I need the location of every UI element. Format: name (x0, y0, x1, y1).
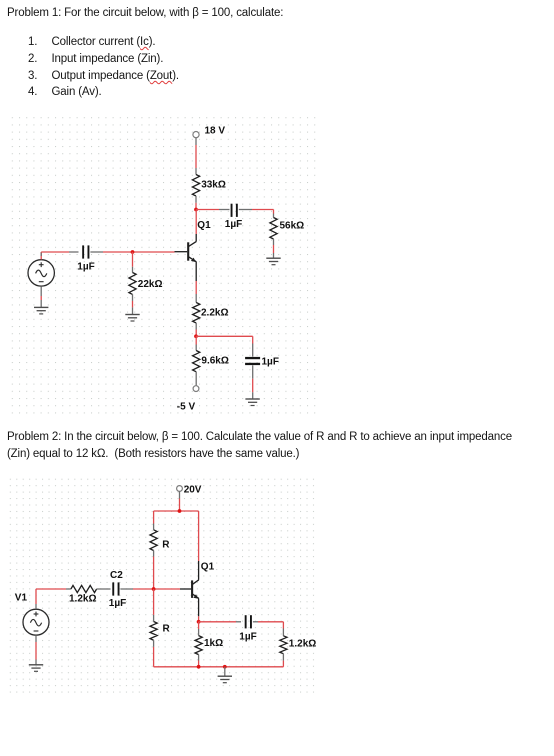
svg-text:1µF: 1µF (225, 219, 242, 230)
node emitter divider (194, 334, 198, 338)
label -5 V (177, 402, 196, 413)
capacitor 1uF bypass circuit2 (245, 615, 252, 628)
resistor 33k (192, 175, 199, 197)
node collector (194, 208, 198, 212)
label 18 V (205, 126, 226, 137)
wire C2 to base node to Q1 base (121, 588, 192, 590)
svg-text:1µF: 1µF (109, 598, 126, 609)
resistor 22k (129, 273, 136, 295)
label R upper (162, 540, 170, 551)
heading problem 2 line 1 (7, 431, 512, 443)
svg-text:1µF: 1µF (77, 261, 94, 272)
wire R lower to bottom rail (153, 640, 155, 667)
wire source bottom to ground (40, 286, 42, 307)
ground 22k (125, 315, 139, 322)
resistor 2.2k (193, 303, 200, 324)
wire R upper to base node (153, 551, 155, 590)
label C2 (110, 570, 123, 581)
wire V1 top to series R (36, 589, 71, 609)
wire emitter row to bypass cap (199, 621, 241, 623)
list item 2 (28, 53, 37, 65)
svg-text:33kΩ: 33kΩ (201, 179, 226, 190)
svg-text:2.2kΩ: 2.2kΩ (201, 308, 228, 319)
svg-text:9.6kΩ: 9.6kΩ (201, 356, 228, 367)
node top rail (178, 509, 182, 513)
terminal 20V (177, 486, 183, 492)
ground V1 (29, 665, 43, 672)
ground source (34, 307, 48, 314)
ground bypass (245, 399, 259, 406)
terminal 18 V (193, 132, 199, 138)
node bottom rail ground (223, 665, 227, 669)
svg-text:1µF: 1µF (262, 356, 279, 367)
svg-text:C2: C2 (110, 570, 123, 581)
resistor 9.6k (193, 336, 200, 385)
resistor 1k (195, 622, 202, 667)
label 1uF bypass (262, 356, 279, 367)
label 1.2k series (69, 594, 96, 605)
wire source top to C in (41, 252, 78, 260)
label 2.2k (201, 308, 228, 319)
label Q1 (197, 220, 211, 231)
label 1uF input (77, 261, 94, 272)
resistor 1.2k right (280, 629, 287, 661)
capacitor C2 (112, 582, 119, 595)
wire base node down to 22k (132, 252, 134, 273)
wire rail to ground stem (224, 667, 226, 676)
wire left column upper (153, 511, 155, 530)
grid background circuit 1 (8, 114, 319, 414)
wire series R to C2 (97, 588, 111, 590)
svg-text:Q1: Q1 (201, 562, 215, 573)
wire collector circuit2 (198, 511, 200, 580)
node base circuit2 (152, 587, 156, 591)
wire bypass cap to 1.2k corner (253, 622, 284, 629)
svg-text:R: R (163, 623, 171, 634)
wire V1 bottom to ground (35, 635, 37, 665)
label Q1 circuit2 (201, 562, 215, 573)
label 1uF C2 (109, 598, 126, 609)
resistor 1.2k series (71, 585, 97, 592)
ground 56k (266, 258, 280, 265)
ground bottom rail (218, 676, 232, 683)
list item 1 (28, 36, 37, 48)
heading problem 2 line 2 (7, 448, 299, 460)
wire bypass cap to ground (252, 365, 254, 399)
heading problem 1 (7, 7, 283, 19)
capacitor 1uF output (231, 204, 238, 217)
label 33k (201, 179, 226, 190)
wire node to C out (196, 209, 230, 211)
node base (131, 250, 135, 254)
source V AC input (28, 260, 54, 286)
label 22k (138, 279, 163, 290)
resistor R upper (150, 530, 157, 551)
transistor Q1 (175, 241, 197, 262)
top rail wire (154, 510, 199, 512)
label 9.6k (201, 356, 228, 367)
wire 56k to ground (273, 245, 275, 258)
label 1.2k right (289, 639, 316, 650)
svg-text:56kΩ: 56kΩ (280, 221, 305, 232)
label 1k (204, 638, 223, 649)
svg-text:1.2kΩ: 1.2kΩ (289, 639, 316, 650)
label 1uF output (225, 219, 242, 230)
wire collector (195, 210, 197, 242)
svg-text:20V: 20V (184, 485, 202, 496)
wire 1.2k right to bottom rail (282, 661, 284, 667)
wire 18V to R 33k (195, 138, 197, 175)
resistor 56k (270, 214, 277, 246)
grid background circuit 2 (8, 476, 319, 696)
wire C in to base node (90, 251, 174, 253)
label R lower (163, 623, 171, 634)
wire 20V to top rail (179, 491, 181, 511)
resistor R lower (150, 622, 157, 641)
svg-text:V1: V1 (15, 592, 28, 603)
label 56k (280, 221, 305, 232)
svg-text:22kΩ: 22kΩ (138, 279, 163, 290)
svg-text:18 V: 18 V (205, 126, 226, 137)
capacitor 1uF input (82, 245, 89, 258)
wire emitter circuit2 (198, 598, 200, 621)
label 1uF bypass circuit2 (239, 632, 256, 643)
list item 3 (28, 70, 37, 82)
wire 22k to ground (132, 294, 134, 314)
svg-text:-5 V: -5 V (177, 402, 196, 413)
svg-text:Q1: Q1 (197, 220, 211, 231)
label V1 (15, 592, 28, 603)
bottom rail wire (154, 666, 284, 668)
label 20V (184, 485, 202, 496)
svg-text:1µF: 1µF (239, 632, 256, 643)
wire C out to 56k corner (239, 210, 274, 214)
terminal -5V (193, 386, 199, 392)
wire R33k to collector node (195, 196, 197, 210)
node bottom rail 1k (197, 665, 201, 669)
list item 4 (28, 86, 37, 98)
wire 2.2k to emitter node (195, 323, 197, 336)
capacitor 1uF bypass (245, 357, 260, 365)
wire node to bypass cap corner (196, 336, 253, 356)
svg-text:R: R (162, 540, 170, 551)
node emitter circuit2 (197, 620, 201, 624)
transistor Q1 circuit2 (192, 580, 199, 599)
wire emitter down (195, 262, 197, 303)
svg-text:1kΩ: 1kΩ (204, 638, 223, 649)
wire left column lower (153, 589, 155, 622)
svg-text:1.2kΩ: 1.2kΩ (69, 594, 96, 605)
source V1 (23, 609, 49, 635)
